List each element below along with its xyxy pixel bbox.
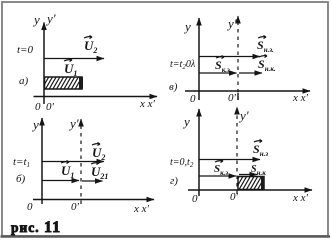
svg-text:г): г) <box>170 175 178 187</box>
svg-text:б): б) <box>16 173 26 185</box>
svg-text:рис. 11: рис. 11 <box>11 219 61 236</box>
svg-text:в): в) <box>169 81 178 93</box>
svg-text:0: 0 <box>190 93 196 105</box>
svg-text:y: y <box>32 12 40 27</box>
svg-text:0': 0' <box>228 92 237 104</box>
svg-text:0': 0' <box>46 101 55 113</box>
svg-text:0: 0 <box>27 201 33 213</box>
svg-text:y: y <box>183 19 191 34</box>
svg-text:y': y' <box>45 11 56 26</box>
svg-text:0': 0' <box>71 201 80 213</box>
svg-text:y': y' <box>238 108 249 123</box>
svg-text:x x': x x' <box>292 92 309 104</box>
svg-text:y': y' <box>68 116 79 131</box>
svg-text:y': y' <box>226 16 237 31</box>
svg-text:y: y <box>182 114 190 129</box>
svg-text:0: 0 <box>192 193 198 205</box>
svg-text:x x': x x' <box>133 203 150 215</box>
svg-text:0: 0 <box>35 101 41 113</box>
svg-text:а): а) <box>19 75 29 87</box>
svg-text:0': 0' <box>230 191 239 203</box>
svg-text:x x': x x' <box>139 98 156 110</box>
svg-text:t=0: t=0 <box>17 44 33 56</box>
svg-text:x x': x x' <box>292 192 309 204</box>
svg-text:y: y <box>31 117 39 132</box>
